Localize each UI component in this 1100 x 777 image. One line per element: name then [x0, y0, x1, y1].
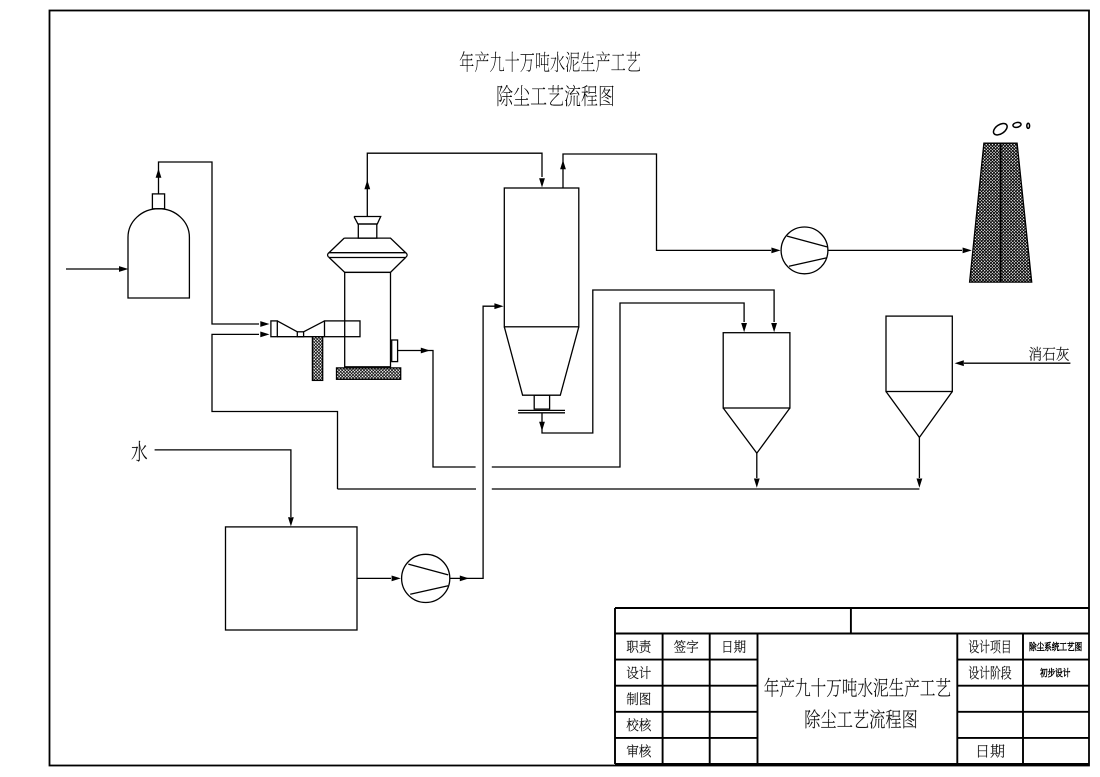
- tower top funnel: [354, 217, 381, 239]
- label 消石灰: [1029, 347, 1069, 361]
- tower cap hexagon: [328, 238, 408, 272]
- cell 审核: [627, 744, 651, 757]
- hopper 2 (lime silo): [886, 316, 952, 437]
- hatched base of tower: [337, 368, 401, 379]
- hatched support below venturi: [312, 337, 322, 381]
- wire: absorber bottom to hopper 1: [539, 290, 777, 433]
- title block grid: [615, 608, 1089, 764]
- cell 初步设计: [1040, 668, 1070, 677]
- hopper 1: [723, 333, 790, 454]
- water tank: [226, 527, 358, 630]
- smoke puffs: [991, 121, 1029, 137]
- wire: hopper 2 discharge: [917, 437, 923, 487]
- wire: hopper 1 discharge: [754, 453, 760, 488]
- chimney: [970, 143, 1032, 282]
- title block drawing name line 1: [764, 678, 950, 697]
- cell 除尘系统工艺图: [1030, 642, 1082, 651]
- cell 职责: [627, 640, 651, 653]
- title line 2: [498, 85, 614, 107]
- cell 校核: [627, 718, 651, 731]
- wire: tank top to venturi inlet: [159, 162, 270, 327]
- title line 1: [460, 51, 640, 72]
- title block drawing name line 2: [806, 709, 917, 728]
- wire: water to tank: [155, 450, 294, 527]
- wire: raw gas inlet arrow: [66, 266, 128, 272]
- pump P1: [402, 554, 450, 602]
- up arrow on tank vent line: [156, 169, 162, 178]
- wire: tower outlet to hopper 1: [398, 303, 747, 467]
- cell 签字: [674, 640, 698, 653]
- cell 制图: [627, 692, 651, 705]
- spray absorber vessel: [504, 188, 579, 413]
- cell 设计阶段: [969, 666, 1011, 680]
- wire: slaked lime feed: [955, 360, 1071, 366]
- label 水: [132, 441, 147, 462]
- tower outlet nozzle: [392, 340, 398, 362]
- wire: pump to absorber: [450, 303, 504, 581]
- cell 设计: [627, 666, 651, 679]
- wire: dust recycle to venturi: [212, 332, 338, 490]
- wire: fan to chimney: [828, 248, 972, 254]
- cell 日期: [724, 640, 746, 653]
- wire: dust collection line: [338, 488, 920, 490]
- venturi mixer: [271, 321, 360, 337]
- wire: tower top to absorber: [364, 153, 545, 216]
- cell 设计项目: [969, 640, 1010, 654]
- wire: tank to pump: [357, 576, 401, 582]
- wire: absorber top to fan: [560, 154, 781, 253]
- cell 日期 (right): [978, 744, 1004, 757]
- humidifying tower column: [345, 272, 391, 366]
- fan F1: [781, 227, 828, 274]
- storage tank V1: [128, 209, 189, 298]
